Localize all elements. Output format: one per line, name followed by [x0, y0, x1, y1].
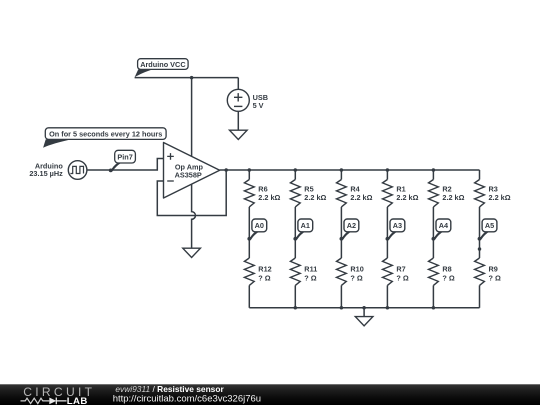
junction bottom rail col 2 [294, 306, 298, 310]
net flag A4 [432, 219, 451, 241]
net flag A5 [478, 219, 497, 241]
wire middle node col 1 [248, 207, 250, 258]
wire source output to op-amp + input [87, 159, 164, 171]
svg-text:R7: R7 [396, 264, 405, 273]
svg-text:2.2 kΩ: 2.2 kΩ [489, 193, 511, 202]
wire rail to resistor R4 [340, 170, 342, 180]
svg-text:2.2 kΩ: 2.2 kΩ [258, 193, 280, 202]
svg-text:5 V: 5 V [253, 101, 264, 110]
net flag A2 [340, 219, 359, 241]
svg-text:Pin7: Pin7 [117, 152, 132, 161]
wire resistor R8 to bottom rail [432, 285, 434, 307]
wire resistor R10 to bottom rail [340, 285, 342, 307]
resistor R1 2.2 kΩ [383, 180, 419, 207]
square wave source: Arduino 23.15 uHz [29, 161, 87, 180]
wire bottom rail [249, 307, 479, 309]
junction top rail col 5 [432, 168, 436, 172]
wire middle node col 2 [294, 207, 296, 258]
svg-text:A0: A0 [255, 221, 264, 230]
wire resistor R11 to bottom rail [294, 285, 296, 307]
svg-text:R10: R10 [350, 264, 363, 273]
wire middle node col 5 [432, 207, 434, 258]
svg-text:2.2 kΩ: 2.2 kΩ [442, 193, 464, 202]
junction top rail col 4 [386, 168, 390, 172]
svg-text:23.15 µHz: 23.15 µHz [29, 169, 63, 178]
junction VCC / op-amp V+ [190, 76, 194, 80]
svg-text:On for 5 seconds every 12 hour: On for 5 seconds every 12 hours [49, 130, 162, 139]
footer bar [0, 384, 540, 405]
wire middle node col 3 [340, 207, 342, 258]
ground (bottom rail) [355, 317, 373, 326]
junction bottom rail ground [362, 306, 366, 310]
net flag A0 [247, 219, 266, 241]
svg-text:A2: A2 [347, 221, 356, 230]
wire resistor R9 to bottom rail [479, 285, 481, 307]
resistor R9 ? Ω [475, 258, 501, 285]
svg-text:Arduino VCC: Arduino VCC [140, 60, 186, 69]
svg-text:R9: R9 [489, 264, 498, 273]
ground (op-amp V-) [183, 248, 201, 257]
wire op-amp V- supply to ground (hops over feedback) [192, 184, 196, 248]
wire rail to resistor R1 [386, 170, 388, 180]
wire middle node col 4 [386, 207, 388, 258]
net flag Arduino VCC [135, 59, 189, 78]
svg-text:? Ω: ? Ω [442, 273, 454, 282]
resistor R6 2.2 kΩ [244, 180, 280, 207]
wire resistor R12 to bottom rail [248, 285, 250, 307]
junction op-amp output [224, 168, 228, 172]
op-amp U1 Op Amp AS358P [164, 143, 220, 199]
wire rail to resistor R2 [432, 170, 434, 180]
svg-text:2.2 kΩ: 2.2 kΩ [396, 193, 418, 202]
resistor R12 ? Ω [244, 258, 271, 285]
wire rail to resistor R5 [294, 170, 296, 180]
svg-text:2.2 kΩ: 2.2 kΩ [304, 193, 326, 202]
svg-text:A1: A1 [301, 221, 310, 230]
junction top rail col 1 [248, 168, 252, 172]
net flag A3 [386, 219, 405, 241]
junction top rail col 3 [340, 168, 344, 172]
svg-text:? Ω: ? Ω [258, 273, 270, 282]
svg-text:? Ω: ? Ω [489, 273, 501, 282]
wire VCC to USB source [237, 78, 239, 90]
svg-text:R12: R12 [258, 264, 271, 273]
resistor R10 ? Ω [337, 258, 364, 285]
junction top rail col 2 [294, 168, 298, 172]
svg-text:A3: A3 [393, 221, 402, 230]
resistor R11 ? Ω [290, 258, 317, 285]
wire op-amp V+ supply [191, 78, 193, 157]
net flag Pin7 [109, 150, 136, 172]
wire rail to resistor R6 [248, 170, 250, 180]
wire USB source to ground [237, 111, 239, 130]
wire op-amp output rail [220, 169, 480, 171]
junction bottom rail col 5 [432, 306, 436, 310]
resistor R8 ? Ω [429, 258, 455, 285]
svg-text:2.2 kΩ: 2.2 kΩ [350, 193, 372, 202]
junction bottom rail col 3 [340, 306, 344, 310]
voltage source V1 USB 5 V [227, 89, 268, 111]
wire resistor R7 to bottom rail [386, 285, 388, 307]
annotation flag: On for 5 seconds every 12 hours [43, 128, 166, 148]
svg-text:? Ω: ? Ω [304, 273, 316, 282]
svg-text:? Ω: ? Ω [396, 273, 408, 282]
resistor R3 2.2 kΩ [475, 180, 511, 207]
svg-text:R11: R11 [304, 264, 317, 273]
junction bottom rail col 4 [386, 306, 390, 310]
svg-text:R8: R8 [442, 264, 451, 273]
svg-text:AS358P: AS358P [175, 171, 202, 180]
resistor R2 2.2 kΩ [429, 180, 465, 207]
resistor R7 ? Ω [383, 258, 409, 285]
wire rail to resistor R3 [479, 170, 481, 180]
wire feedback: output to - input [157, 170, 226, 216]
net flag A1 [293, 219, 312, 241]
ground (USB) [230, 130, 248, 139]
wire bottom rail to ground [363, 308, 365, 317]
svg-text:A5: A5 [485, 221, 494, 230]
CircuitLab logo [21, 385, 96, 405]
svg-text:http://circuitlab.com/c6e3vc32: http://circuitlab.com/c6e3vc326j76u [113, 394, 261, 405]
resistor R5 2.2 kΩ [290, 180, 326, 207]
wire VCC rail [135, 77, 239, 79]
wire middle node col 6 [479, 207, 481, 258]
junction A5 node [478, 247, 482, 251]
svg-text:LAB: LAB [67, 396, 88, 405]
svg-text:? Ω: ? Ω [350, 273, 362, 282]
resistor R4 2.2 kΩ [337, 180, 373, 207]
svg-text:A4: A4 [439, 221, 449, 230]
